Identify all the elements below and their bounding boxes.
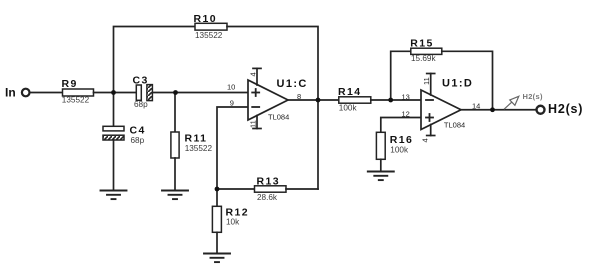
wire node A up to top rail bbox=[114, 27, 196, 93]
wire U1:D output to terminal bbox=[461, 109, 536, 111]
svg-text:11: 11 bbox=[249, 120, 258, 128]
svg-text:135522: 135522 bbox=[185, 144, 213, 153]
svg-text:135522: 135522 bbox=[195, 31, 223, 40]
op-amp U1:C bbox=[248, 80, 288, 120]
ground under C4 bbox=[101, 191, 127, 200]
wire node B down to R11 bbox=[174, 93, 176, 133]
svg-text:R9: R9 bbox=[62, 78, 78, 90]
svg-text:100k: 100k bbox=[390, 145, 409, 154]
resistor R14 bbox=[339, 97, 371, 103]
svg-text:H2(s): H2(s) bbox=[523, 92, 543, 101]
capacitor C4 bbox=[103, 126, 124, 131]
ground under R12 bbox=[204, 254, 230, 263]
svg-text:R10: R10 bbox=[194, 13, 217, 25]
resistor R13 bbox=[255, 186, 287, 192]
junction node B bbox=[173, 90, 178, 95]
junction node C pin9/R13/R12 bbox=[215, 187, 220, 192]
wire U1:D pin 12 bbox=[381, 118, 421, 133]
svg-text:8: 8 bbox=[297, 92, 301, 101]
probe arrow bbox=[505, 96, 519, 109]
wire R13 to output node vertical bbox=[286, 188, 318, 190]
svg-text:10k: 10k bbox=[226, 218, 240, 227]
svg-text:11: 11 bbox=[422, 77, 431, 85]
op-amp U1:C pin 4 stub bbox=[256, 68, 258, 85]
wire R16 to ground bbox=[380, 159, 382, 171]
ground under R16 bbox=[368, 172, 394, 181]
wire node D up to R15 bbox=[391, 51, 411, 100]
svg-text:135522: 135522 bbox=[62, 96, 90, 105]
svg-text:4: 4 bbox=[249, 72, 258, 76]
svg-text:R15: R15 bbox=[410, 38, 433, 50]
wire node C down to R12 bbox=[216, 189, 218, 206]
wire node C to R13 bbox=[217, 188, 255, 190]
wire node B to U1:C pin 10 bbox=[176, 92, 249, 94]
op-amp U1:C plus sign bbox=[252, 89, 259, 96]
svg-text:14: 14 bbox=[472, 101, 480, 110]
op-amp U1:D bbox=[421, 90, 461, 130]
svg-text:U1:D: U1:D bbox=[442, 78, 473, 90]
svg-text:R14: R14 bbox=[338, 86, 361, 98]
svg-text:U1:C: U1:C bbox=[277, 78, 308, 90]
svg-text:R16: R16 bbox=[390, 134, 413, 146]
wire U1:C pin 9 bbox=[217, 107, 248, 189]
wire R11 to ground bbox=[174, 158, 176, 191]
svg-text:TL084: TL084 bbox=[268, 112, 289, 121]
wire R9 to node A bbox=[94, 92, 114, 94]
resistor R11 bbox=[171, 132, 179, 158]
terminal In bbox=[22, 89, 30, 97]
ground under R11 bbox=[162, 191, 188, 200]
terminal H2(s) bbox=[537, 106, 545, 114]
wire U1:C output bbox=[288, 99, 318, 101]
wire In to R9 bbox=[30, 92, 63, 94]
op-amp U1:D minus sign bbox=[426, 99, 433, 101]
svg-text:15.69k: 15.69k bbox=[411, 54, 436, 63]
wire C4 to ground bbox=[113, 140, 115, 191]
resistor R10 bbox=[195, 23, 227, 30]
wire C3 to node B bbox=[152, 92, 175, 94]
op-amp U1:D plus sign bbox=[426, 114, 433, 121]
resistor R9 bbox=[63, 89, 94, 96]
junction node D R14/R15/pin13 bbox=[388, 98, 393, 103]
svg-text:13: 13 bbox=[402, 93, 410, 102]
wire node A to C3 bbox=[114, 92, 137, 94]
wire R15 to output node E bbox=[442, 51, 493, 109]
svg-text:9: 9 bbox=[230, 99, 234, 108]
svg-text:68p: 68p bbox=[134, 100, 148, 109]
svg-text:68p: 68p bbox=[131, 136, 145, 145]
junction node A bbox=[111, 90, 116, 95]
junction U1:D output node E bbox=[490, 107, 495, 112]
resistor R16 bbox=[376, 132, 385, 159]
op-amp U1:C pin 11 stub bbox=[256, 116, 258, 129]
svg-text:TL084: TL084 bbox=[444, 120, 465, 129]
wire R10 to output node vertical bbox=[227, 27, 318, 190]
op-amp U1:D pin 4 stub bbox=[430, 125, 432, 136]
svg-text:28.6k: 28.6k bbox=[257, 193, 278, 202]
wire R12 to ground bbox=[216, 232, 218, 253]
resistor R12 bbox=[212, 206, 221, 232]
op-amp U1:D pin 11 stub bbox=[430, 74, 432, 96]
wire output node to R14 bbox=[318, 99, 339, 101]
op-amp U1:C minus sign bbox=[252, 106, 259, 108]
svg-text:10: 10 bbox=[227, 83, 235, 92]
wire R14 to node D bbox=[371, 99, 391, 101]
svg-text:H2(s): H2(s) bbox=[548, 102, 583, 116]
resistor R15 bbox=[411, 48, 442, 54]
svg-text:100k: 100k bbox=[339, 104, 358, 113]
junction U1:C output node bbox=[316, 98, 321, 103]
capacitor C3 bbox=[136, 85, 141, 100]
svg-text:R13: R13 bbox=[257, 175, 280, 187]
svg-text:4: 4 bbox=[421, 138, 430, 142]
svg-text:R11: R11 bbox=[185, 132, 208, 144]
wire node D to U1:D pin 13 bbox=[391, 99, 421, 101]
svg-text:C4: C4 bbox=[130, 125, 146, 137]
svg-text:C3: C3 bbox=[133, 74, 149, 86]
svg-text:In: In bbox=[5, 86, 16, 100]
wire node A down to C4 bbox=[113, 93, 115, 127]
svg-text:12: 12 bbox=[402, 109, 410, 118]
